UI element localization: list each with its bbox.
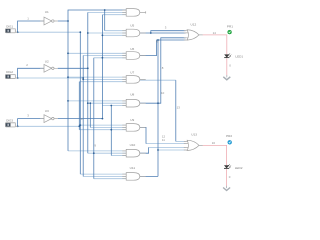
svg-text:2: 2 <box>26 63 28 67</box>
wire U3 output to C' bus <box>58 118 103 120</box>
node U10 in3 dogleg cross <box>110 129 112 131</box>
wire U11 in3 dogleg <box>93 58 95 179</box>
node U8 branch <box>157 102 159 104</box>
and gate U6 <box>122 52 145 60</box>
svg-text:U11: U11 <box>130 166 136 170</box>
svg-text:PR2: PR2 <box>226 134 232 138</box>
node U3 out on C' bus <box>102 118 104 120</box>
wire U5 in1 tap <box>105 30 127 32</box>
svg-text:4: 4 <box>81 117 83 121</box>
wire U10 in1 tap <box>68 150 126 152</box>
wire U8 in2 tap <box>88 102 126 104</box>
inverter U3 <box>40 115 57 123</box>
wire U13 in4 horizontal light <box>158 149 186 151</box>
node B' tap U8 <box>87 102 89 104</box>
wire B' bus vertical <box>87 12 89 153</box>
wire B bus vertical <box>82 56 84 177</box>
wire U8 in3 tap <box>102 105 126 107</box>
svg-text:DIG1: DIG1 <box>6 24 13 28</box>
probe PR1 <box>227 24 233 34</box>
LED LED1 <box>224 53 231 57</box>
node U2 out on B' bus <box>87 67 89 69</box>
probe PR2 <box>226 134 232 144</box>
node B' tap U5 <box>87 32 89 34</box>
svg-text:0: 0 <box>229 175 231 179</box>
wire LED1 to ground <box>226 58 228 75</box>
node U5 out branch <box>150 32 152 34</box>
svg-text:LED2: LED2 <box>235 166 243 170</box>
node tie U12 in4 <box>157 39 159 41</box>
wire U5 out jog <box>140 31 186 33</box>
svg-text:9: 9 <box>94 144 96 148</box>
svg-text:DIG2: DIG2 <box>6 70 13 74</box>
wire U13 in2 horizontal <box>146 143 186 145</box>
switch DG1 <box>5 29 18 33</box>
wire U4 in2 tap <box>88 11 126 13</box>
wire U7 out run <box>140 79 176 81</box>
wire DG2 row <box>18 77 83 79</box>
wire U10 in3 dogleg <box>110 106 112 156</box>
and gate U9 <box>122 124 145 132</box>
wire C' bus vertical <box>101 15 103 119</box>
wire U9 in2 tap <box>90 126 126 128</box>
wire U4 in3 tap <box>102 14 126 16</box>
ground under LED2 <box>223 186 230 191</box>
wire U8 branch vertical <box>157 40 159 176</box>
wire U6 out to U12 in4 <box>140 40 186 56</box>
wire U3 input <box>18 119 44 127</box>
LED LED2 <box>224 164 231 168</box>
wire U13 output net to LED2 <box>203 145 227 165</box>
node DG3 riser <box>78 125 80 127</box>
node A' tap U6 <box>67 52 69 54</box>
node U10 in3 dogleg top <box>110 105 112 107</box>
wire U8 out to U12 in3 <box>140 38 186 103</box>
node A tap U9 <box>79 124 81 126</box>
wire U5 in2 tap <box>88 32 126 34</box>
wire U11 in3 tap <box>94 178 126 180</box>
or gate U13 <box>184 132 203 150</box>
wire DG1 row <box>18 31 81 33</box>
wire U2 output to B' bus <box>58 67 88 69</box>
wire U9 in1 tap <box>80 124 126 126</box>
svg-text:U9: U9 <box>130 118 134 122</box>
svg-text:0: 0 <box>229 64 231 68</box>
svg-text:U8: U8 <box>130 93 134 97</box>
wire U10 in3 tap <box>111 155 126 157</box>
svg-text:1: 1 <box>27 17 29 21</box>
node DG2 branch <box>17 77 19 79</box>
wire U1 input <box>18 21 44 32</box>
svg-text:U5: U5 <box>130 24 134 28</box>
and gate U5 <box>122 29 145 37</box>
node C' tap U5 <box>102 34 104 36</box>
wire U7 in2 tap <box>83 78 126 80</box>
wire U7 in1 tap <box>68 76 126 78</box>
ground under LED1 <box>223 75 230 80</box>
node U9 in2 dogleg <box>89 102 91 104</box>
svg-text:16: 16 <box>212 141 216 145</box>
wire U10 in2 tap <box>88 152 126 154</box>
wire U8 in1 tap <box>68 100 126 102</box>
svg-text:U7: U7 <box>130 71 134 75</box>
or gate U12 <box>184 22 203 40</box>
svg-text:10: 10 <box>161 91 165 95</box>
node A' tap U8 <box>67 100 69 102</box>
svg-text:11: 11 <box>162 138 165 142</box>
svg-text:U13: U13 <box>191 132 197 136</box>
wire U11 in1 tap <box>80 173 126 175</box>
wire U9 in3 tap <box>79 129 126 131</box>
svg-text:13: 13 <box>177 106 181 110</box>
svg-text:LED1: LED1 <box>235 54 243 58</box>
wire LED2 to ground <box>226 169 228 186</box>
svg-text:U12: U12 <box>191 22 197 26</box>
node dogleg on U4 in1 <box>104 9 106 11</box>
node U6 in3 junction <box>102 57 104 59</box>
wire U1 output to A' bus <box>58 20 68 22</box>
wire U13 in1 horizontal <box>176 140 186 142</box>
wire U11 in2 tap <box>83 175 126 177</box>
svg-text:PR1: PR1 <box>227 24 233 28</box>
wire U6 in1 tap <box>68 52 126 54</box>
switch DG2 <box>5 74 18 78</box>
node in4 tap <box>157 149 159 151</box>
and gate U4 <box>122 9 145 17</box>
wire U10 out riser <box>140 147 149 153</box>
svg-text:DIG3: DIG3 <box>6 119 13 123</box>
and gate U7 <box>122 76 145 84</box>
node A' tap U7 <box>67 76 69 78</box>
svg-text:U3: U3 <box>45 109 49 113</box>
svg-text:8: 8 <box>162 66 164 70</box>
wire U7 in3 tap <box>79 81 126 83</box>
node B bus DG2 <box>82 77 84 79</box>
and gate U10 <box>122 149 145 157</box>
svg-text:3: 3 <box>165 25 167 29</box>
node tie on U10 in2 <box>93 152 95 154</box>
node B tap U7 <box>82 79 84 81</box>
and gate U8 <box>122 99 145 107</box>
wire U11 out <box>140 175 158 177</box>
wire U7 drop vertical <box>175 80 177 141</box>
wire U13 in3 horizontal <box>149 146 186 148</box>
wire U12 output net to LED1 <box>203 35 227 55</box>
node DG1 branch <box>17 31 19 33</box>
wire DG3 row <box>18 125 80 127</box>
inverter U1 <box>40 17 57 25</box>
wire A bus vertical <box>79 32 81 174</box>
wire A' bus vertical <box>68 10 126 151</box>
and gate U11 <box>122 173 145 181</box>
svg-text:14: 14 <box>213 31 217 35</box>
wire U9 out to drop <box>140 127 146 143</box>
wire U2 input <box>18 68 44 78</box>
node A bus DG1 <box>79 31 81 33</box>
wire C riser vertical <box>78 82 80 130</box>
svg-text:U10: U10 <box>130 143 136 147</box>
svg-text:U1: U1 <box>45 10 49 14</box>
svg-text:3: 3 <box>27 113 29 117</box>
node U1 out on A' bus <box>67 20 69 22</box>
switch DG3 <box>5 123 18 127</box>
node DG3 branch <box>17 125 19 127</box>
wire U5 in3 tap <box>102 34 126 36</box>
wire U6 in2 tap <box>83 55 126 57</box>
svg-text:U2: U2 <box>45 59 49 63</box>
wire U6 in3 tap with dogleg start <box>94 57 126 59</box>
wire U5 in1 dogleg vertical <box>104 10 106 31</box>
svg-text:U6: U6 <box>130 47 134 51</box>
inverter U2 <box>40 64 57 72</box>
wire U9 in2 dogleg <box>89 103 91 127</box>
